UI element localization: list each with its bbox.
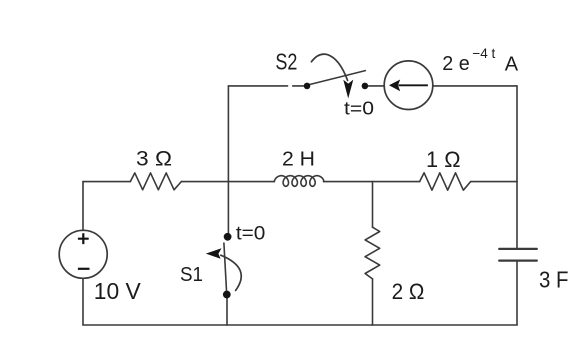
wire 2-ohm branch lower	[372, 279, 374, 325]
resistor 3-ohm	[130, 173, 181, 190]
svg-text:2 e: 2 e	[442, 53, 470, 75]
resistor 1-ohm	[420, 173, 471, 190]
wire middle right of 1-ohm resistor	[471, 181, 517, 183]
wire bottom	[83, 324, 517, 326]
svg-text:2 Ω: 2 Ω	[392, 279, 425, 304]
voltage source plus sign	[78, 233, 89, 244]
wire 2-ohm branch upper	[372, 182, 374, 228]
wire S2 right to current source	[365, 85, 384, 87]
svg-text:10 V: 10 V	[94, 278, 141, 304]
svg-text:t=0: t=0	[236, 223, 266, 244]
capacitor 3F top plate	[499, 248, 537, 250]
switch S2 node dot left	[304, 83, 311, 90]
svg-text:−4 t: −4 t	[472, 45, 495, 61]
switch S1 arrow arc	[221, 255, 241, 290]
svg-text:2 H: 2 H	[282, 148, 315, 170]
voltage source V1 circle	[59, 230, 107, 278]
switch S2 blade	[308, 71, 365, 85]
wire right rail lower	[516, 261, 518, 325]
switch S2 arrowhead	[343, 80, 353, 99]
wire right rail upper	[516, 86, 518, 249]
wire top segment left	[228, 85, 287, 87]
wire top-left vertical	[227, 86, 229, 237]
wire S1 lower	[226, 295, 228, 326]
wire top segment stub	[293, 85, 307, 87]
switch S1 node dot top	[224, 233, 232, 241]
svg-text:1 Ω: 1 Ω	[426, 147, 461, 172]
voltage source minus sign	[78, 268, 90, 270]
svg-text:S1: S1	[180, 263, 203, 286]
wire middle between 3-ohm resistor and inductor	[181, 181, 274, 183]
capacitor 3F bottom plate	[499, 260, 537, 262]
svg-text:t=0: t=0	[344, 99, 374, 119]
svg-text:3 Ω: 3 Ω	[136, 148, 172, 171]
svg-text:S2: S2	[275, 48, 297, 74]
switch S1 blade	[224, 243, 227, 294]
wire left rail lower	[82, 278, 84, 325]
current source I1 circle	[384, 61, 433, 110]
switch S2 node dot right	[362, 83, 369, 90]
switch S1 arrowhead	[206, 248, 222, 258]
switch S1 node dot bottom	[223, 291, 231, 299]
resistor 2-ohm	[365, 227, 380, 279]
inductor 2H	[274, 176, 324, 187]
current source arrow	[389, 80, 400, 92]
svg-text:3 F: 3 F	[539, 267, 569, 293]
svg-text:A: A	[505, 53, 519, 75]
wire current source to right rail	[433, 85, 517, 87]
wire middle between inductor and 1-ohm resistor	[324, 181, 420, 183]
switch S2 arrow arc	[311, 54, 347, 80]
wire left rail upper	[82, 182, 84, 231]
wire middle left	[83, 181, 130, 183]
